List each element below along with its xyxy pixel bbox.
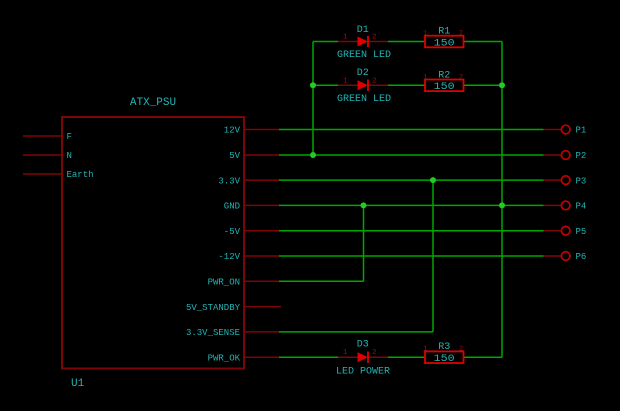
svg-text:D2: D2	[357, 68, 369, 79]
wire PWR_ON vertical segment up to GND row	[363, 205, 365, 281]
pin 5V of U1	[244, 154, 279, 156]
svg-text:R1: R1	[438, 27, 450, 38]
svg-text:-12V: -12V	[218, 252, 240, 262]
P3 stub	[544, 179, 562, 181]
D3 triangle (anode)	[358, 352, 369, 362]
pin PWR_ON of U1	[244, 280, 279, 282]
svg-text:Earth: Earth	[67, 170, 94, 180]
junction at PWR_ON vertical / GND wire	[361, 202, 367, 208]
svg-text:GREEN LED: GREEN LED	[337, 50, 391, 61]
svg-text:1: 1	[343, 77, 348, 85]
wire 3.3V row: U1 3.3V to P3	[279, 179, 544, 181]
svg-text:P6: P6	[576, 252, 587, 262]
P6 circle	[561, 252, 570, 261]
svg-text:1: 1	[343, 349, 348, 357]
wire D2 anode feed	[313, 84, 338, 86]
D1 cathode bar	[367, 36, 369, 47]
pin -12V of U1	[244, 255, 279, 257]
pin PWR_OK of U1	[244, 356, 279, 358]
P4 stub	[544, 204, 562, 206]
svg-text:F: F	[67, 132, 72, 142]
pin 2 stub of D1	[368, 41, 388, 43]
pin 1 stub of D2	[338, 84, 358, 86]
svg-text:D1: D1	[357, 25, 369, 36]
P2 circle	[561, 151, 570, 160]
svg-text:LED POWER: LED POWER	[336, 367, 390, 378]
pin Earth of U1	[23, 173, 62, 175]
P3 circle	[561, 176, 570, 185]
resistor R2	[423, 70, 464, 93]
connector pin P2	[544, 151, 587, 162]
svg-text:PWR_ON: PWR_ON	[208, 278, 240, 288]
svg-text:5V: 5V	[229, 151, 240, 161]
svg-text:1: 1	[423, 346, 427, 354]
component U1 ATX_PSU body outline	[62, 117, 244, 369]
wire PWR_ON horizontal segment	[279, 280, 364, 282]
svg-text:P2: P2	[576, 151, 587, 161]
pin -5V of U1	[244, 230, 279, 232]
svg-text:GND: GND	[224, 202, 240, 212]
svg-text:2: 2	[372, 34, 377, 42]
wire 3.3V_SENSE horizontal segment	[279, 331, 433, 333]
pin 2 stub of D3	[368, 356, 388, 358]
D2 cathode bar	[367, 80, 369, 91]
connector pin P3	[544, 176, 587, 187]
P4 circle	[561, 201, 570, 210]
svg-text:P4: P4	[576, 202, 587, 212]
wire GND row: U1 GND to P4	[279, 204, 544, 206]
pin 1 stub of D1	[338, 41, 358, 43]
svg-text:U1: U1	[71, 378, 85, 390]
svg-text:P1: P1	[576, 126, 587, 136]
D2 triangle (anode)	[358, 80, 369, 90]
R3 body	[425, 351, 464, 363]
connector pin P4	[544, 201, 587, 212]
LED D2	[337, 68, 391, 105]
LED D3	[336, 339, 390, 377]
svg-text:12V: 12V	[224, 126, 241, 136]
svg-text:D3: D3	[357, 339, 369, 350]
svg-text:1: 1	[423, 30, 427, 38]
D3 cathode bar	[367, 352, 369, 363]
P2 stub	[544, 154, 562, 156]
svg-text:GREEN LED: GREEN LED	[337, 94, 391, 105]
resistor R1	[423, 27, 464, 50]
junction at left bus / 5V wire	[310, 152, 316, 158]
pin F of U1	[23, 135, 62, 137]
pin 1 stub of D3	[338, 356, 358, 358]
P1 circle	[561, 125, 570, 134]
svg-text:2: 2	[372, 349, 377, 357]
svg-text:3.3V_SENSE: 3.3V_SENSE	[186, 328, 240, 338]
wire left bus vertical (5V tap to LED anodes)	[312, 42, 314, 156]
D1 triangle (anode)	[358, 37, 369, 47]
pin 2 stub of D2	[368, 84, 388, 86]
wire -12V row: U1 -12V to P6	[279, 255, 544, 257]
pin 3.3V of U1	[244, 179, 279, 181]
svg-text:5V_STANDBY: 5V_STANDBY	[186, 303, 241, 313]
svg-text:2: 2	[372, 77, 377, 85]
LED D1	[337, 25, 391, 61]
wire 3.3V_SENSE vertical segment up to 3.3V row	[432, 180, 434, 332]
connector pin P6	[544, 252, 587, 263]
R2 body	[425, 80, 464, 92]
P5 circle	[561, 226, 570, 235]
svg-text:1: 1	[343, 34, 348, 42]
svg-text:150: 150	[434, 354, 455, 365]
resistor R3	[423, 342, 464, 365]
svg-text:2: 2	[459, 74, 463, 82]
svg-text:P3: P3	[576, 176, 587, 186]
junction at right bus / GND wire	[499, 202, 505, 208]
P1 stub	[544, 129, 562, 131]
svg-text:150: 150	[434, 82, 455, 93]
svg-text:1: 1	[423, 74, 427, 82]
wire D1 anode feed	[313, 41, 338, 43]
svg-text:N: N	[67, 151, 72, 161]
junction at 3.3V_SENSE vertical / 3.3V wire	[430, 177, 436, 183]
P5 stub	[544, 230, 562, 232]
wire 12V row: U1 12V to P1	[279, 129, 544, 131]
wire D3 cathode to R3	[388, 356, 425, 358]
wire R1 output to right bus	[464, 41, 503, 43]
wire R3 output to right bus	[464, 356, 503, 358]
pin 12V of U1	[244, 129, 279, 131]
wire 5V row: U1 5V to P2	[279, 154, 544, 156]
wire PWR_OK to D3 anode	[279, 356, 338, 358]
wire R2 output to right bus	[464, 84, 503, 86]
svg-text:ATX_PSU: ATX_PSU	[130, 97, 176, 109]
R1 body	[425, 36, 464, 48]
junction at left bus / D2 anode	[310, 82, 316, 88]
svg-text:2: 2	[459, 30, 463, 38]
pin N of U1	[23, 154, 62, 156]
svg-text:3.3V: 3.3V	[218, 176, 240, 186]
connector pin P5	[544, 226, 587, 237]
P6 stub	[544, 255, 562, 257]
svg-text:2: 2	[459, 346, 463, 354]
pin 5V_STANDBY of U1 (unconnected)	[244, 306, 281, 308]
pin 3.3V_SENSE of U1	[244, 331, 279, 333]
svg-text:150: 150	[434, 38, 455, 49]
svg-text:R2: R2	[438, 70, 450, 81]
svg-text:R3: R3	[438, 342, 450, 353]
wire -5V row: U1 -5V to P5	[279, 230, 544, 232]
svg-text:-5V: -5V	[224, 227, 241, 237]
svg-text:PWR_OK: PWR_OK	[208, 353, 241, 363]
pin GND of U1	[244, 204, 279, 206]
wire D1 cathode to R1	[388, 41, 425, 43]
junction at right bus / R2 output	[499, 82, 505, 88]
svg-text:P5: P5	[576, 227, 587, 237]
wire right bus vertical (R1/R2/R3 returns to GND row)	[501, 42, 503, 358]
wire D2 cathode to R2	[388, 84, 425, 86]
connector pin P1	[544, 125, 587, 136]
